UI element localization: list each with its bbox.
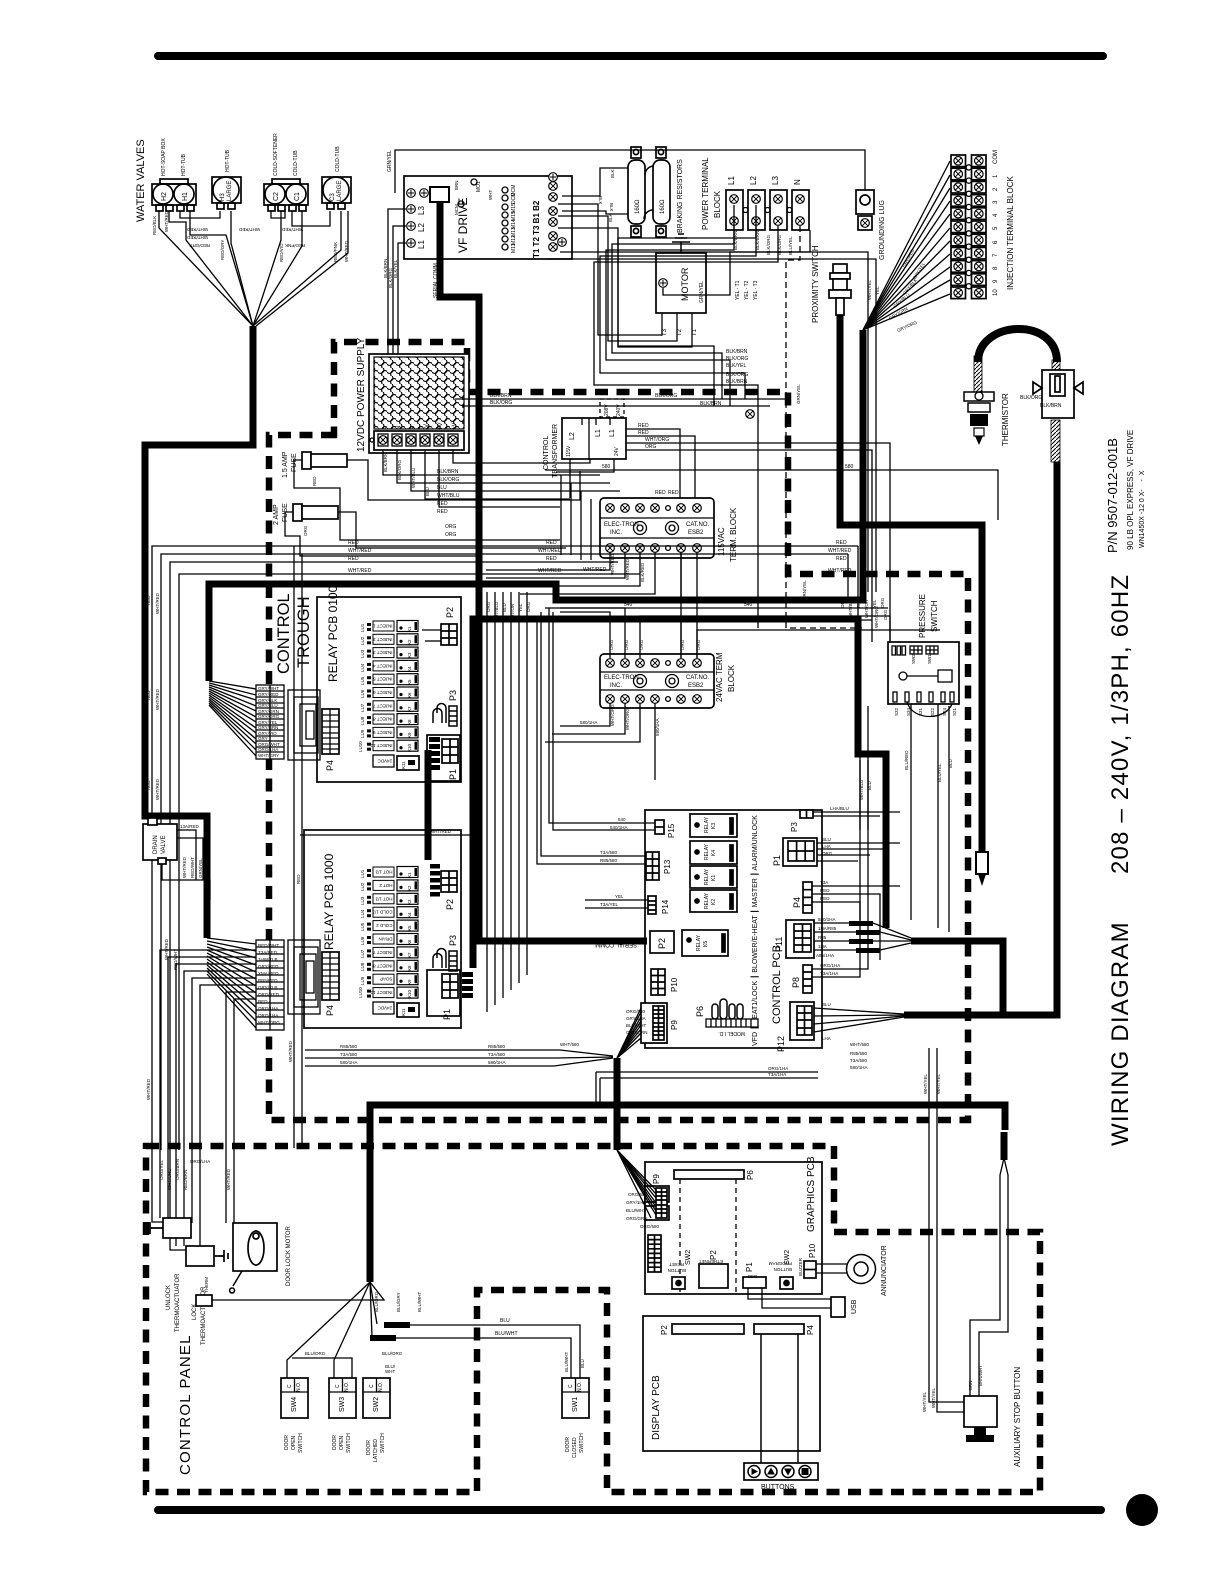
svg-text:CONTROL PANEL: CONTROL PANEL <box>177 1334 194 1475</box>
svg-text:WHT/RED: WHT/RED <box>155 778 160 800</box>
svg-text:RELAY PCB 0100: RELAY PCB 0100 <box>326 585 340 682</box>
wire 540 pair <box>560 607 888 609</box>
svg-text:P6: P6 <box>695 1006 705 1017</box>
svg-text:INJECT 6: INJECT 6 <box>373 690 393 695</box>
svg-text:P1: P1 <box>745 1262 754 1272</box>
svg-text:AUXILIARY STOP BUTTON: AUXILIARY STOP BUTTON <box>1013 1367 1022 1467</box>
12VDC power supply PS1 <box>369 354 469 453</box>
svg-text:CONTROL: CONTROL <box>543 436 550 470</box>
svg-text:RELAY PCB 1000: RELAY PCB 1000 <box>322 853 336 950</box>
svg-text:ORG: ORG <box>680 639 685 650</box>
wire relay1000-P1 to control P11 cable <box>473 619 886 968</box>
svg-text:BLU: BLU <box>867 781 872 790</box>
svg-text:BLU/WHT: BLU/WHT <box>564 1351 569 1372</box>
svg-text:P2: P2 <box>660 1325 669 1335</box>
svg-text:RED: RED <box>348 556 359 562</box>
svg-text:WHT/RED: WHT/RED <box>344 240 349 262</box>
tiny labels P9 fan <box>626 1009 648 1035</box>
svg-text:C: C <box>568 1384 574 1388</box>
svg-text:WHT/BLU: WHT/BLU <box>494 602 499 622</box>
svg-text:LATCHED: LATCHED <box>373 1439 379 1462</box>
connector P4 (1000) with bracket frames <box>322 952 339 1000</box>
svg-text:INJECT 7: INJECT 7 <box>373 950 393 955</box>
svg-text:RED: RED <box>146 595 151 605</box>
control trough dashed enclosure <box>269 342 968 1120</box>
svg-text:WHT/BLU: WHT/BLU <box>848 598 853 618</box>
relay rows K1-K10 (PCB 0100) <box>367 621 418 752</box>
svg-text:LU7: LU7 <box>360 949 365 958</box>
svg-text:24VAC TERM: 24VAC TERM <box>715 652 724 702</box>
svg-text:DISPLAY PCB: DISPLAY PCB <box>651 1375 662 1440</box>
svg-text:WHT: WHT <box>488 190 493 200</box>
thermistor cable arc <box>978 329 1057 362</box>
svg-text:RED/GRY: RED/GRY <box>190 243 210 248</box>
wire WHT/RED crossing at 835 <box>300 834 470 836</box>
svg-text:K11: K11 <box>401 1008 406 1016</box>
wire WHT/RED long left <box>161 554 848 1150</box>
svg-text:INJECT 8: INJECT 8 <box>373 963 393 968</box>
control panel dashed enclosure <box>146 1146 1040 1492</box>
wires aux stop BRN pair <box>970 1158 1004 1396</box>
drain valve DV1 <box>143 818 177 864</box>
svg-text:INJECT 8: INJECT 8 <box>373 717 393 722</box>
grounding lug <box>856 190 874 230</box>
svg-text:P2: P2 <box>445 899 455 910</box>
svg-text:UNLOCK: UNLOCK <box>166 1285 172 1310</box>
svg-text:GRY/XLB: GRY/XLB <box>258 985 277 990</box>
svg-text:WHT/YEL: WHT/YEL <box>923 1074 928 1094</box>
svg-text:+V: +V <box>438 422 444 430</box>
svg-text:GRY/1HA: GRY/1HA <box>626 1200 646 1205</box>
svg-text:RED: RED <box>836 556 847 562</box>
fuse F1 1.5A <box>302 452 347 469</box>
power terminal block TB1 <box>726 190 809 230</box>
control transformer T1 <box>562 418 626 459</box>
svg-text:OPEN: OPEN <box>339 1435 345 1450</box>
relay K1 <box>690 866 737 888</box>
svg-text:ORG: ORG <box>883 609 888 620</box>
wire from panel thermistor <box>212 1282 384 1300</box>
svg-text:M12: M12 <box>511 235 517 245</box>
svg-text:COLD 2: COLD 2 <box>376 923 393 928</box>
svg-text:RED: RED <box>546 540 557 546</box>
relay K4 <box>690 841 737 864</box>
tiny labels 0100 fan <box>258 686 280 758</box>
svg-text:LU8: LU8 <box>360 962 365 971</box>
svg-text:K5: K5 <box>407 679 412 685</box>
wire VF drive input stubs <box>388 209 406 406</box>
panel thermistor stub <box>196 1295 212 1306</box>
svg-text:T3A/1HA: T3A/1HA <box>768 1072 786 1077</box>
relay K3 <box>690 814 737 837</box>
svg-text:LU2: LU2 <box>360 636 365 645</box>
svg-text:24V: 24V <box>614 446 620 456</box>
svg-text:13A/RED: 13A/RED <box>180 824 200 829</box>
svg-text:OPEN: OPEN <box>291 1435 297 1450</box>
resistor lead hooks <box>645 166 654 175</box>
svg-text:BLOCK: BLOCK <box>727 664 736 692</box>
svg-text:CAT.NO.: CAT.NO. <box>686 522 710 528</box>
svg-text:10: 10 <box>993 289 999 296</box>
svg-text:RESET: RESET <box>669 1262 684 1267</box>
svg-text:P14: P14 <box>661 899 670 914</box>
wire riser group to term blocks <box>561 475 591 560</box>
svg-text:S22: S22 <box>930 707 935 716</box>
svg-text:ELEC-TRON: ELEC-TRON <box>604 522 639 528</box>
svg-text:SW2: SW2 <box>685 1250 692 1265</box>
svg-text:THERM: THERM <box>204 1277 209 1293</box>
svg-text:BLK/ORG: BLK/ORG <box>726 372 748 378</box>
svg-text:K11: K11 <box>401 761 406 769</box>
svg-text:BLK/BRN: BLK/BRN <box>1040 403 1062 409</box>
aux stop button switch <box>964 1396 997 1427</box>
svg-text:SWITCH: SWITCH <box>346 1433 352 1453</box>
svg-text:K2: K2 <box>407 885 412 891</box>
svg-text:SOAP: SOAP <box>380 977 393 982</box>
svg-text:SW1: SW1 <box>572 1397 579 1412</box>
three long 580 wires <box>305 1050 613 1056</box>
connector P2 (0100) <box>441 624 457 645</box>
svg-text:1HA/R85: 1HA/R85 <box>818 926 837 931</box>
svg-text:GRN/YEL: GRN/YEL <box>802 580 807 600</box>
svg-text:ORG: ORG <box>822 851 833 856</box>
voltage tap jumper 208V/240V <box>600 399 624 417</box>
svg-text:RED/PNK: RED/PNK <box>285 243 305 248</box>
svg-text:P4: P4 <box>792 897 802 908</box>
connector P6 model id <box>712 999 743 1019</box>
svg-text:WHT/RED: WHT/RED <box>610 553 615 575</box>
wire 115 to 24 block links <box>681 552 697 658</box>
svg-text:DOOR: DOOR <box>332 1435 338 1450</box>
injection harness fan wires <box>863 161 950 330</box>
svg-text:S32: S32 <box>894 707 899 716</box>
svg-text:K1: K1 <box>711 875 717 881</box>
connector P4 (control) <box>803 882 812 913</box>
svg-text:GRN/YEL: GRN/YEL <box>796 384 801 404</box>
svg-text:RELAY: RELAY <box>696 934 702 951</box>
connector P8 <box>803 965 812 993</box>
svg-text:GRN/YEL: GRN/YEL <box>387 150 393 172</box>
thermistor connector J1 <box>1033 370 1083 418</box>
svg-text:P10: P10 <box>670 977 679 992</box>
svg-text:THERMOACTUATOR: THERMOACTUATOR <box>175 1273 181 1332</box>
relay PCB 0100 board <box>317 597 461 782</box>
svg-text:PRESSURE: PRESSURE <box>918 594 927 638</box>
svg-text:ORG/1HA: ORG/1HA <box>258 1013 278 1018</box>
svg-text:YEL - T3: YEL - T3 <box>753 280 759 300</box>
svg-text:MO1: MO1 <box>476 181 482 192</box>
wires BLU/WHT-BLU verticals near 860 <box>859 760 861 830</box>
svg-text:SWITCH: SWITCH <box>298 1433 304 1453</box>
svg-text:P9: P9 <box>652 1174 661 1184</box>
svg-text:BLU: BLU <box>580 1359 585 1368</box>
svg-text:BRN: BRN <box>968 1380 973 1390</box>
svg-text:BLK/BRN: BLK/BRN <box>490 393 512 399</box>
screw terminal stray <box>746 410 755 419</box>
svg-text:INJECT 4: INJECT 4 <box>373 663 393 668</box>
svg-text:INC.: INC. <box>610 530 622 536</box>
svg-text:LU9: LU9 <box>360 729 365 738</box>
pressure switch PS <box>888 642 959 704</box>
svg-text:BLU: BLU <box>822 837 831 842</box>
door switch SW3 <box>329 1378 356 1418</box>
grid connector 2x8 <box>648 1235 661 1272</box>
svg-text:580/1HA: 580/1HA <box>818 917 836 922</box>
svg-text:K4: K4 <box>407 912 412 918</box>
pressure switch arc wire <box>907 702 952 717</box>
svg-text:RELAY: RELAY <box>704 892 710 909</box>
injection block terminal units <box>951 155 986 167</box>
svg-text:WHT/ORG: WHT/ORG <box>874 606 879 628</box>
svg-text:P4: P4 <box>806 1325 815 1335</box>
svg-text:ANNUNCIATOR: ANNUNCIATOR <box>881 1245 888 1296</box>
svg-text:C: C <box>369 1384 375 1388</box>
wire relay0100-P1 to relay1000-P2 cable <box>425 750 432 860</box>
svg-text:TROUGH: TROUGH <box>295 597 313 669</box>
svg-text:BLK: BLK <box>608 213 613 222</box>
wires P8 leads <box>812 706 868 969</box>
wires P11 to crimps <box>814 923 911 950</box>
svg-text:DCM: DCM <box>511 193 517 204</box>
svg-text:BLK/ORG: BLK/ORG <box>397 459 402 480</box>
svg-text:BLK/RED: BLK/RED <box>640 562 645 582</box>
svg-text:BLU/GRY: BLU/GRY <box>396 1292 401 1312</box>
svg-text:RELAY: RELAY <box>704 816 710 833</box>
svg-text:GRY/ORG: GRY/ORG <box>258 714 280 719</box>
connector P10 <box>651 969 665 995</box>
svg-text:WHT/RED: WHT/RED <box>430 829 452 834</box>
wire thermistor cable <box>904 462 1057 1015</box>
svg-text:WHT/RED: WHT/RED <box>288 1040 293 1062</box>
svg-text:BLU/ORG: BLU/ORG <box>305 1351 326 1356</box>
svg-text:A85/1HA: A85/1HA <box>816 953 834 958</box>
svg-text:L1: L1 <box>595 429 602 437</box>
svg-text:YEL - T1: YEL - T1 <box>735 280 741 300</box>
svg-text:RELAY: RELAY <box>704 868 710 885</box>
svg-text:RED/VIO: RED/VIO <box>279 243 284 262</box>
svg-text:P3: P3 <box>448 690 458 701</box>
svg-text:2 AMP: 2 AMP <box>273 504 280 525</box>
svg-text:COLD-SOFTENER: COLD-SOFTENER <box>273 133 279 176</box>
wire 580 long <box>545 470 998 520</box>
svg-text:LARGE: LARGE <box>337 181 343 201</box>
svg-text:T1 T2 T3 B1 B2: T1 T2 T3 B1 B2 <box>532 200 541 258</box>
svg-text:RED: RED <box>437 509 448 515</box>
svg-text:T3: T3 <box>662 328 668 336</box>
svg-text:INJECT 1: INJECT 1 <box>373 624 393 629</box>
svg-text:SERIAL COMM: SERIAL COMM <box>595 941 637 947</box>
svg-text:YEL: YEL <box>872 599 877 608</box>
svg-text:WN1450X -12 0 X- - X: WN1450X -12 0 X- - X <box>1139 470 1146 548</box>
svg-text:208V: 208V <box>604 404 610 416</box>
svg-text:K5: K5 <box>407 925 412 931</box>
valve C3 LARGE <box>322 177 351 209</box>
svg-text:ORG/RED: ORG/RED <box>258 992 280 997</box>
relay PCB 1000 board <box>304 830 461 1028</box>
connector P1 (0100) <box>427 735 460 781</box>
relay K2 <box>690 890 737 912</box>
svg-text:DOOR: DOOR <box>284 1435 290 1450</box>
svg-text:K7: K7 <box>407 952 412 958</box>
svg-text:COLD 1/3: COLD 1/3 <box>372 910 393 915</box>
svg-text:ORG: ORG <box>609 639 614 650</box>
drive signal pins DCM/M15-M11 <box>502 185 517 253</box>
fuse F2 2A <box>293 504 338 521</box>
door switch SW4 <box>281 1378 308 1418</box>
svg-text:BLU: BLU <box>425 487 430 496</box>
svg-text:BLK/ORG: BLK/ORG <box>726 356 748 362</box>
svg-text:L2: L2 <box>569 432 576 440</box>
svg-text:BLK/BRN: BLK/BRN <box>700 401 722 407</box>
svg-text:⚲: ⚲ <box>409 426 416 430</box>
svg-text:ORG/BRN: ORG/BRN <box>175 1159 180 1180</box>
svg-text:RED/BLK: RED/BLK <box>152 216 157 235</box>
svg-text:INJECT 5: INJECT 5 <box>373 677 393 682</box>
svg-text:C3: C3 <box>330 193 336 201</box>
svg-text:RED: RED <box>296 874 301 884</box>
svg-text:P3: P3 <box>448 935 458 946</box>
wire RED long left <box>152 546 858 1222</box>
svg-text:BLK/ORG: BLK/ORG <box>490 400 512 406</box>
svg-text:RED: RED <box>258 999 268 1004</box>
svg-text:M11: M11 <box>511 243 517 253</box>
svg-text:WHT/ORG: WHT/ORG <box>645 437 669 443</box>
motor ground symbol <box>672 234 690 253</box>
svg-text:P13: P13 <box>663 859 672 874</box>
svg-text:GROUNDING LUG: GROUNDING LUG <box>879 200 886 260</box>
svg-text:LU3: LU3 <box>360 896 365 905</box>
connector P11 <box>786 920 814 958</box>
svg-text:P11: P11 <box>774 937 784 952</box>
svg-text:GRY/RED: GRY/RED <box>258 692 279 697</box>
svg-text:WHT/YEL: WHT/YEL <box>867 280 872 300</box>
svg-text:T3A/580: T3A/580 <box>340 1052 358 1057</box>
wire 24VAC top risers ORG <box>545 608 940 658</box>
svg-text:115V: 115V <box>566 445 572 457</box>
wire-label column P4 1000 <box>256 940 284 1030</box>
svg-text:INJECT 9: INJECT 9 <box>373 730 393 735</box>
wire motor leads to drive <box>558 204 662 335</box>
svg-text:ORG: ORG <box>445 532 457 538</box>
fan wires injection harness to P4 0100 <box>209 681 256 756</box>
wire graphics-pcb harness <box>614 1058 621 1150</box>
svg-text:LU5: LU5 <box>360 676 365 685</box>
svg-text:P6: P6 <box>746 1170 755 1180</box>
svg-text:HOT-SOAP BOX: HOT-SOAP BOX <box>161 138 167 176</box>
dashed board tracks <box>680 1179 736 1292</box>
svg-text:L1: L1 <box>417 240 426 249</box>
svg-text:WHT/RED: WHT/RED <box>182 856 187 878</box>
svg-text:K7: K7 <box>407 706 412 712</box>
svg-text:WIRING DIAGRAM 208 – 2: WIRING DIAGRAM 208 – 240V, 1/3PH, 60HZ <box>1107 574 1134 1146</box>
serial port connector <box>430 187 449 202</box>
wire N dashed <box>786 226 862 628</box>
svg-text:LU4: LU4 <box>360 663 365 672</box>
svg-text:T3A/580: T3A/580 <box>488 1052 506 1057</box>
power supply output wires <box>383 418 620 507</box>
svg-text:BLK/BRN: BLK/BRN <box>726 349 748 355</box>
crimp splice BLU/WHT <box>370 1335 396 1341</box>
svg-text:WHT/BLU: WHT/BLU <box>437 493 460 499</box>
svg-text:K4: K4 <box>407 666 412 672</box>
thermistor braid segments <box>974 356 982 392</box>
pin MO1 <box>471 179 477 185</box>
wire proximity-switch cable <box>840 315 982 852</box>
wire P15 leads <box>549 608 655 823</box>
svg-text:RED/GRY: RED/GRY <box>220 240 225 260</box>
svg-text:ORG: ORG <box>840 597 845 608</box>
svg-text:H2: H2 <box>161 192 168 201</box>
svg-text:HOT-TUB: HOT-TUB <box>181 153 187 176</box>
fan harness to graphics P9 <box>617 1150 656 1218</box>
svg-text:12VDC POWER SUPPLY: 12VDC POWER SUPPLY <box>356 337 367 452</box>
svg-text:L1: L1 <box>609 429 616 437</box>
svg-text:H1: H1 <box>182 192 189 201</box>
svg-text:VALVE: VALVE <box>161 836 167 854</box>
svg-text:580/1HA: 580/1HA <box>850 1065 868 1070</box>
svg-text:K3: K3 <box>407 652 412 658</box>
svg-text:T3A: T3A <box>820 880 828 885</box>
svg-text:BUZZER: BUZZER <box>798 1257 803 1276</box>
svg-text:PROXIMITY SWITCH: PROXIMITY SWITCH <box>811 245 820 323</box>
proximity switch PRS1 <box>829 264 851 315</box>
svg-text:RED: RED <box>312 476 317 486</box>
svg-text:K8: K8 <box>407 719 412 725</box>
svg-text:ORG: ORG <box>526 601 531 612</box>
svg-text:WHT/RED: WHT/RED <box>281 227 303 232</box>
svg-text:WHT/RED: WHT/RED <box>155 592 160 614</box>
svg-text:L3: L3 <box>417 206 426 215</box>
svg-text:K3: K3 <box>711 823 717 829</box>
svg-text:SW2: SW2 <box>911 654 916 664</box>
VF drive box U1 <box>404 176 572 259</box>
svg-text:CLOSED: CLOSED <box>572 1437 578 1458</box>
display PCB board <box>643 1316 820 1451</box>
svg-text:P2: P2 <box>709 1250 718 1260</box>
svg-text:K6: K6 <box>407 692 412 698</box>
svg-text:RED: RED <box>437 501 448 507</box>
svg-text:ESB2: ESB2 <box>688 683 704 689</box>
svg-text:LU4: LU4 <box>360 909 365 918</box>
wires from P2-0100 stubs to left <box>422 629 441 631</box>
svg-text:ORG/580: ORG/580 <box>628 1192 648 1197</box>
svg-text:N.O.: N.O. <box>378 1382 384 1392</box>
svg-text:ORG/1HA: ORG/1HA <box>768 1066 788 1071</box>
wires P1 to usb <box>748 1288 831 1299</box>
115VAC terminal block TB3 <box>600 498 714 558</box>
svg-text:THERMISTOR: THERMISTOR <box>1001 393 1010 446</box>
svg-text:WHT/RED: WHT/RED <box>828 548 852 554</box>
svg-text:P2: P2 <box>445 607 455 618</box>
svg-text:LU5: LU5 <box>360 922 365 931</box>
svg-text:WHT/GRY: WHT/GRY <box>258 753 279 758</box>
svg-text:K6: K6 <box>407 939 412 945</box>
valve H3 LARGE <box>212 177 241 209</box>
svg-text:RED/PNK: RED/PNK <box>333 242 338 262</box>
tiny labels 1000 fan <box>258 943 280 1025</box>
svg-text:COLD-TUB: COLD-TUB <box>293 150 299 176</box>
svg-text:LU1: LU1 <box>360 869 365 878</box>
svg-text:R85/580: R85/580 <box>340 1044 358 1049</box>
connector P3 (control) <box>800 810 813 818</box>
wires drive to power terminal block <box>606 226 734 406</box>
svg-text:T2: T2 <box>677 328 683 336</box>
bottom border bar <box>158 1506 1101 1514</box>
svg-text:ORG: ORG <box>639 639 644 650</box>
svg-text:P4: P4 <box>325 1005 335 1016</box>
svg-text:LU3: LU3 <box>360 649 365 658</box>
svg-text:INC.: INC. <box>610 683 622 689</box>
